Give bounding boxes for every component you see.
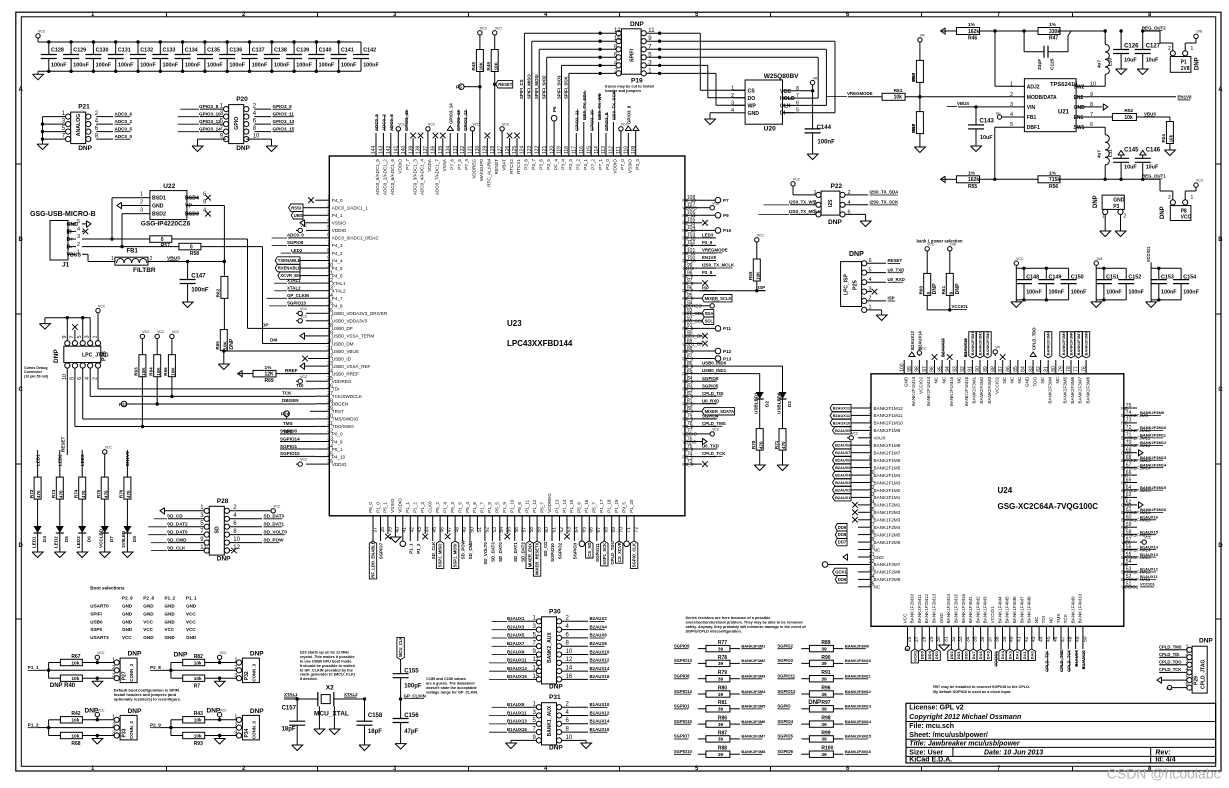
svg-text:VCC: VCC (143, 619, 153, 624)
svg-text:P5: P5 (456, 85, 462, 90)
svg-text:CPLD_TMS: CPLD_TMS (1159, 645, 1182, 650)
svg-text:82: 82 (1036, 366, 1042, 372)
svg-text:GPIO3_9: GPIO3_9 (273, 104, 293, 109)
capacitor C141 100nF (331, 40, 357, 73)
svg-text:USB0_DP: USB0_DP (332, 326, 353, 331)
svg-text:BANK1F4M4: BANK1F4M4 (997, 596, 1002, 623)
global label GCK1 (833, 568, 848, 575)
svg-text:5: 5 (869, 433, 872, 439)
hier pin arrow U23 pin109 (633, 126, 639, 141)
svg-text:DNP: DNP (849, 251, 864, 258)
svg-text:P1_1: P1_1 (186, 595, 197, 600)
svg-text:P3_7: P3_7 (531, 159, 536, 170)
svg-text:100nF: 100nF (207, 63, 223, 69)
svg-text:P10: P10 (723, 228, 732, 233)
wires P26 top pins (45, 316, 90, 341)
svg-text:GPIO3_13: GPIO3_13 (456, 110, 461, 131)
svg-text:C152: C152 (1128, 275, 1141, 281)
svg-text:Id: 4/4: Id: 4/4 (1155, 757, 1175, 764)
svg-text:R87: R87 (718, 730, 727, 736)
svg-text:5: 5 (77, 219, 80, 225)
svg-text:A: A (1218, 87, 1223, 93)
svg-text:B2AUX12: B2AUX12 (590, 658, 610, 663)
power VCC U23 pin94 (699, 299, 720, 308)
svg-text:DI: DI (780, 111, 786, 117)
testpoint P13 (699, 356, 732, 362)
svg-text:R90: R90 (821, 655, 830, 661)
svg-text:39: 39 (821, 646, 827, 652)
net label B2AUX13 (489, 666, 536, 671)
connector P22 I2S (DNP) (814, 183, 851, 226)
svg-text:CONN_3: CONN_3 (129, 721, 134, 739)
net label B2AUX16 (562, 674, 610, 679)
svg-text:7: 7 (796, 93, 799, 99)
net label U0_RXD (699, 398, 719, 403)
svg-text:NC: NC (1049, 616, 1054, 623)
svg-text:BANK2F3M9: BANK2F3M9 (845, 643, 870, 648)
svg-text:C125: C125 (1050, 58, 1056, 70)
svg-text:B2AUX5: B2AUX5 (835, 465, 851, 470)
net label B2AUX10 (562, 649, 610, 654)
capacitor C140 100nF (308, 40, 334, 73)
power VCC U24 pin26 (905, 640, 910, 652)
net label SD_DAT3 (491, 531, 496, 562)
svg-text:2: 2 (731, 93, 734, 99)
net label CPLD_TDI (1045, 640, 1050, 672)
svg-text:TDI: TDI (332, 387, 339, 392)
svg-text:DA7: DA7 (971, 651, 976, 660)
svg-text:DNP: DNP (250, 651, 264, 658)
svg-text:BANK2F3M11: BANK2F3M11 (1140, 433, 1167, 438)
net label REG_OUT1 (1142, 174, 1166, 179)
svg-text:BANK2F1M5: BANK2F1M5 (874, 465, 901, 470)
svg-text:I2S0_TX_SCK: I2S0_TX_SCK (870, 200, 900, 205)
svg-text:BANK2F3M16: BANK2F3M16 (1140, 507, 1167, 512)
svg-text:VCC: VCC (186, 619, 196, 624)
ground (C156) (395, 743, 406, 750)
svg-text:DNP: DNP (955, 283, 961, 294)
svg-text:P5_5: P5_5 (495, 502, 500, 513)
wire P19 right harness 3 (646, 72, 745, 106)
svg-text:GSG-XC2C64A-7VQG100C: GSG-XC2C64A-7VQG100C (998, 502, 1099, 511)
svg-text:CS_AD: CS_AD (587, 543, 592, 557)
svg-text:ADC0_4/ADC1_4: ADC0_4/ADC1_4 (420, 159, 425, 195)
net label B2AUX15 (940, 337, 945, 357)
resistor R75 470 (96, 477, 108, 499)
svg-text:10k: 10k (194, 676, 202, 682)
svg-text:138: 138 (416, 145, 422, 154)
svg-text:P3_1: P3_1 (583, 159, 588, 170)
svg-text:1: 1 (112, 657, 115, 663)
svg-text:715k: 715k (1049, 177, 1060, 183)
net label B1AUX15 (1140, 529, 1159, 534)
svg-text:VDDIO: VDDIO (613, 159, 618, 174)
svg-text:VCC: VCC (780, 89, 791, 95)
global label SCL (699, 317, 714, 324)
svg-text:DNP: DNP (128, 651, 142, 658)
svg-text:C155 and C156 values: C155 and C156 values (426, 677, 466, 681)
no-connect U23 pin105 (699, 220, 708, 226)
power VCC U23 pin141 (396, 123, 406, 141)
svg-text:DD9: DD9 (838, 525, 847, 530)
svg-text:VCC: VCC (1144, 536, 1152, 540)
svg-text:USB0_VDDA3V3: USB0_VDDA3V3 (332, 319, 368, 324)
svg-text:8: 8 (869, 455, 872, 461)
svg-text:P34: P34 (244, 728, 250, 737)
svg-text:VCC: VCC (495, 27, 503, 31)
svg-text:MIXER_RESETX: MIXER_RESETX (535, 542, 540, 575)
svg-text:142: 142 (386, 145, 392, 154)
svg-text:98: 98 (915, 366, 921, 372)
wire D+ from J1 to R57 (82, 238, 150, 240)
wire U22 VP to VBUS (199, 206, 224, 262)
svg-text:NC: NC (934, 376, 939, 383)
power VCC U23 pin111 (619, 123, 629, 141)
svg-text:R54: R54 (1161, 134, 1166, 143)
connector P20 GPIO (DNP) (220, 96, 260, 152)
svg-text:BANK2F1M1: BANK2F1M1 (874, 495, 901, 500)
svg-text:RF_LDO_ENABLE: RF_LDO_ENABLE (371, 541, 376, 578)
svg-text:ADC0_6/ADC1_6: ADC0_6/ADC1_6 (390, 159, 395, 195)
svg-text:124: 124 (520, 145, 526, 154)
svg-text:BANK2F3M2: BANK2F3M2 (978, 331, 983, 356)
svg-text:DNP: DNP (630, 21, 644, 28)
svg-text:P1_2: P1_2 (28, 722, 39, 727)
global label GCK2 (911, 640, 918, 663)
junction VBUS sense to U23 pin21 (222, 349, 315, 352)
svg-text:18pF: 18pF (282, 727, 296, 733)
svg-text:P7_7: P7_7 (405, 159, 410, 170)
svg-text:4u7: 4u7 (1097, 150, 1102, 158)
ground (P20 pin9) (192, 144, 203, 152)
no-connect U23 pin47 (445, 531, 451, 540)
svg-text:R81: R81 (718, 700, 727, 706)
net label LED3 (LED column top) (80, 450, 85, 477)
svg-text:P1_13: P1_13 (554, 499, 559, 513)
svg-text:BANK2F3M3: BANK2F3M3 (985, 331, 990, 356)
svg-text:VCC: VCC (502, 123, 510, 127)
svg-text:100nF: 100nF (96, 63, 112, 69)
svg-text:SD_DAT2: SD_DAT2 (167, 522, 188, 527)
svg-text:DA4: DA4 (1000, 650, 1005, 659)
capacitor C142 100nF (353, 42, 379, 71)
svg-text:BANK2F3M7: BANK2F3M7 (1076, 331, 1081, 356)
svg-text:C153: C153 (1161, 275, 1174, 281)
svg-text:P12: P12 (723, 349, 732, 354)
svg-text:VBUS: VBUS (957, 101, 969, 106)
svg-text:B2AUX3: B2AUX3 (835, 480, 851, 485)
svg-text:120: 120 (549, 145, 555, 154)
svg-text:SW1: SW1 (1074, 125, 1085, 131)
CPLD U24 GSG-XC2C64A-7VQG100C (858, 360, 1151, 642)
ground (D5) (54, 551, 65, 558)
svg-text:10k: 10k (1169, 134, 1174, 142)
svg-text:DD1: DD1 (956, 651, 961, 660)
svg-text:2: 2 (1168, 195, 1171, 201)
connector P34 CONN_3 (DNP) (234, 708, 264, 740)
power VCC U23 pin17 (296, 314, 315, 323)
resistor R89 39 (777, 640, 869, 652)
svg-text:44: 44 (1039, 636, 1045, 642)
svg-text:GPIO3_11: GPIO3_11 (575, 110, 580, 131)
no-connect U23 pin22 (302, 356, 315, 362)
svg-text:2: 2 (869, 410, 872, 416)
svg-text:DNP: DNP (236, 145, 250, 152)
resistor R49 10K (486, 27, 502, 141)
wire TMS row with testpoint P24 (83, 368, 316, 426)
svg-text:SGPIO10: SGPIO10 (550, 543, 555, 562)
text boot selections table (90, 586, 197, 640)
global label BANK2F3M5 (1060, 331, 1067, 358)
svg-text:BANK2F3M5: BANK2F3M5 (741, 704, 766, 709)
net label B1AUX9 (1074, 640, 1079, 667)
svg-text:C146: C146 (1146, 148, 1161, 154)
ground (C153 group) (1146, 300, 1157, 308)
net label SD_CMD (151, 537, 204, 542)
svg-text:EN1V8: EN1V8 (1178, 95, 1192, 100)
svg-text:100nF: 100nF (363, 63, 379, 69)
svg-text:RESET: RESET (494, 159, 499, 175)
svg-text:GSG-USB-MICRO-B: GSG-USB-MICRO-B (30, 211, 96, 218)
resistor R59 10K (ISP pull-up) (748, 234, 764, 293)
net label BANK2F3M10 (1140, 425, 1167, 430)
svg-text:VREGMODE: VREGMODE (702, 248, 728, 253)
svg-text:BANK2_AUX: BANK2_AUX (547, 632, 553, 663)
resistor R63 10K pull-up (134, 330, 150, 428)
ground (C147) (182, 300, 193, 308)
svg-text:header and jumpers: header and jumpers (605, 89, 641, 93)
resistor R68 10k (49, 732, 115, 747)
svg-text:10K: 10K (755, 271, 760, 280)
capacitor C136 100nF (219, 40, 245, 73)
svg-text:B1AUX9: B1AUX9 (507, 702, 525, 707)
net label SD_CD (543, 531, 548, 557)
svg-text:BANK1F2M5: BANK1F2M5 (874, 532, 901, 537)
capacitor C144 100nF (805, 91, 835, 152)
hier pin arrow U23 pin23 (300, 363, 315, 369)
svg-text:P26: P26 (102, 351, 108, 361)
wire P19 right harness 4 (646, 56, 818, 99)
wire SPIFI_SCK (564, 72, 616, 141)
wire P19 right harness 1 (646, 32, 745, 91)
net label VREGMODE (827, 91, 882, 97)
svg-text:VCC: VCC (1181, 215, 1192, 221)
svg-text:SGPIO11: SGPIO11 (595, 543, 600, 562)
svg-text:CPLD_TDI: CPLD_TDI (702, 391, 723, 396)
svg-text:SGPIO14: SGPIO14 (280, 436, 300, 441)
svg-text:MIXER_ENX: MIXER_ENX (527, 543, 532, 567)
svg-text:BANK2F3M3: BANK2F3M3 (741, 674, 766, 679)
svg-text:SGPIO5: SGPIO5 (702, 383, 719, 388)
svg-text:137: 137 (423, 145, 429, 154)
svg-text:BANK2F3M4: BANK2F3M4 (1047, 376, 1052, 403)
svg-text:162k: 162k (968, 177, 979, 183)
svg-text:CLK: CLK (780, 103, 791, 109)
LED D8 1V8LED (121, 499, 137, 551)
svg-text:TMS/SWDIO: TMS/SWDIO (332, 417, 359, 422)
svg-text:1: 1 (731, 85, 734, 91)
capacitor C128 100nF (41, 40, 67, 73)
resistor R50 DNP (911, 34, 925, 97)
capacitor C153 100nF (1151, 267, 1177, 302)
svg-text:C156: C156 (404, 713, 419, 719)
svg-text:BSD3: BSD3 (185, 212, 199, 218)
svg-text:GSG-IP4220CZ6: GSG-IP4220CZ6 (141, 220, 191, 227)
svg-text:R89: R89 (821, 640, 830, 646)
global label BANK2F3M4 (1045, 331, 1052, 358)
svg-text:SW2: SW2 (1074, 84, 1085, 90)
svg-text:90: 90 (975, 366, 981, 372)
svg-text:SD_POW: SD_POW (461, 539, 466, 559)
svg-text:SGPIO: SGPIO (777, 704, 791, 709)
no-connect P28 pin12 (230, 548, 237, 554)
svg-text:10uF: 10uF (1124, 58, 1137, 64)
regulator U21 TPS62410 (1010, 79, 1096, 132)
svg-text:DD8: DD8 (838, 532, 847, 537)
svg-text:DNP: DNP (911, 124, 916, 133)
svg-text:SD_CLK: SD_CLK (167, 545, 186, 550)
svg-text:U23 starts up on its 12 MHz: U23 starts up on its 12 MHz (300, 651, 349, 655)
svg-text:R69: R69 (265, 378, 274, 384)
svg-text:SGPIO9: SGPIO9 (674, 643, 690, 648)
svg-text:18pF: 18pF (368, 729, 382, 735)
svg-text:VCC: VCC (473, 123, 481, 127)
svg-text:P1_20: P1_20 (629, 499, 634, 513)
resistor R100 39 (777, 746, 872, 758)
resistor R57 0 (150, 236, 172, 249)
svg-text:SGPIO10: SGPIO10 (674, 749, 693, 754)
svg-text:470: 470 (758, 441, 763, 449)
svg-text:XTAL2: XTAL2 (332, 289, 346, 294)
global label SDA (699, 310, 714, 317)
resistor R97 39 (777, 700, 872, 712)
ground (C143) (971, 145, 982, 152)
net label B1AUX15 (489, 727, 536, 732)
svg-text:P1_5: P1_5 (457, 502, 462, 513)
svg-text:C: C (19, 387, 24, 393)
net label SGPIO10 (280, 451, 315, 456)
svg-text:P6_0: P6_0 (682, 462, 693, 467)
global label DD3 (933, 640, 940, 660)
svg-text:7: 7 (869, 448, 872, 454)
ground (P25 pin1) (867, 310, 887, 321)
svg-text:XTAL2: XTAL2 (344, 692, 358, 697)
svg-text:SCL: SCL (705, 318, 714, 323)
svg-text:C149: C149 (1049, 275, 1062, 281)
connector P21 ANALOG (DNP) (62, 104, 99, 153)
svg-text:BANK1F2M15: BANK1F2M15 (954, 593, 959, 623)
svg-text:D-: D- (67, 245, 73, 251)
wire USB LED D3 (716, 366, 783, 392)
wire ADJ2 feedback (995, 31, 1012, 86)
svg-text:C155: C155 (404, 668, 419, 674)
wire TDI row (98, 368, 315, 389)
capacitor C145 10uF (1113, 148, 1139, 182)
svg-text:10k: 10k (894, 95, 903, 101)
svg-text:100nF: 100nF (229, 63, 245, 69)
net label SD_DAT2 (148, 522, 204, 527)
text Cortex Debug Connector note (24, 366, 49, 378)
svg-text:BSD1: BSD1 (152, 196, 166, 202)
no-connect U23 pin90 (699, 333, 708, 339)
hier pin arrow (P28 pin1) (160, 508, 204, 514)
svg-text:SGPIO4: SGPIO4 (777, 719, 793, 724)
svg-text:GP_CLKIN: GP_CLKIN (287, 293, 309, 298)
svg-text:P9: P9 (723, 213, 729, 218)
svg-text:B2AUX12: B2AUX12 (833, 406, 851, 411)
svg-text:GPIO: GPIO (234, 117, 240, 130)
svg-text:10K: 10K (222, 340, 227, 349)
net label P2_9 (699, 240, 716, 245)
net label GPIO3_11 (254, 111, 294, 116)
svg-text:D: D (1218, 543, 1223, 549)
svg-text:traces may be cut to install: traces may be cut to install (605, 85, 654, 89)
svg-text:GND: GND (1113, 198, 1125, 204)
power VCC (U20 pin8) (794, 76, 818, 92)
svg-text:144: 144 (371, 145, 377, 154)
net label B2AUX11 (489, 658, 536, 663)
svg-text:39: 39 (821, 752, 827, 758)
net label SD_CLK (431, 531, 436, 559)
net label SD_DAT0 (498, 531, 503, 562)
svg-text:GND: GND (1074, 105, 1086, 111)
svg-text:BANK2F3M4: BANK2F3M4 (741, 689, 766, 694)
capacitor C138 100nF (264, 40, 290, 73)
svg-text:P31: P31 (549, 694, 561, 701)
svg-text:GND: GND (152, 204, 164, 210)
ground (D7) (99, 551, 110, 558)
svg-text:P1: P1 (1181, 60, 1187, 66)
svg-text:P4_5: P4_5 (332, 266, 343, 271)
svg-text:SGPIO2: SGPIO2 (777, 643, 793, 648)
svg-text:B2AUX10: B2AUX10 (833, 420, 851, 425)
capacitor C154 100nF (1173, 268, 1199, 300)
net label GP_CLKIN (267, 293, 316, 298)
svg-text:C138: C138 (274, 48, 287, 54)
svg-text:10K: 10K (141, 367, 146, 376)
connector P28 SD (DNP) (200, 498, 240, 563)
svg-text:BANK2F3M14: BANK2F3M14 (1140, 462, 1167, 467)
svg-text:C128: C128 (51, 48, 64, 54)
resistor R47 330k 1% (1038, 22, 1105, 42)
wire DBF1 to REG_OUT1 rail (993, 127, 1012, 181)
testpoint P12 (699, 348, 732, 354)
svg-text:SGPIO3: SGPIO3 (777, 658, 793, 663)
svg-text:C142: C142 (363, 48, 376, 54)
net label CPLD_TCK (P29) (1159, 667, 1187, 672)
svg-text:NC: NC (957, 376, 962, 383)
svg-text:B1AUX11: B1AUX11 (1140, 574, 1159, 579)
global label SSP1_MISO (436, 531, 443, 569)
capacitor C125 33pF (1024, 31, 1071, 70)
svg-text:470: 470 (781, 441, 786, 449)
svg-text:DNP: DNP (53, 349, 60, 363)
svg-text:47pF: 47pF (404, 729, 418, 735)
resistor R64 10K pull-up (149, 330, 165, 405)
svg-text:P5_6: P5_6 (577, 502, 582, 513)
svg-text:UBS: UBS (294, 213, 303, 218)
net label SGPIO11 (595, 531, 600, 562)
global label B2AUX7 (833, 449, 859, 456)
capacitor C155 100pF (393, 668, 422, 697)
capacitor C143 10uF (968, 107, 995, 145)
svg-text:USBLED0: USBLED0 (776, 392, 781, 414)
svg-text:R64: R64 (149, 367, 154, 376)
resistor R67 10k (49, 654, 115, 666)
wire MODB/DATA to R51 (905, 95, 1012, 98)
svg-text:SGPIO6: SGPIO6 (777, 749, 793, 754)
svg-text:DA2: DA2 (1015, 650, 1020, 659)
